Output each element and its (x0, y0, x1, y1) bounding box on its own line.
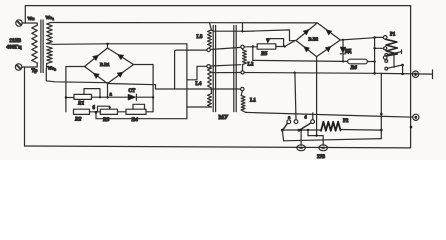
MU winding L4 (208, 68, 212, 94)
svg-text:R6: R6 (350, 65, 358, 71)
svg-text:L3: L3 (197, 35, 203, 40)
resistor R3 with wiper (98, 106, 127, 114)
label 115V 400Hz (6, 38, 22, 51)
svg-text:400Гц: 400Гц (6, 45, 22, 51)
wire L3 to L2 crossover (210, 47, 240, 49)
transformer Tr secondary winding Wb1 (47, 23, 52, 44)
terminal feedback circle (410, 114, 419, 128)
wire BB1 right corner to CT/R4 column (134, 65, 154, 112)
wire right vertical bus (410, 6, 412, 148)
contact b feed (312, 113, 314, 120)
svg-text:Wп: Wп (28, 16, 35, 21)
bridge rectifier BB1 (85, 43, 134, 84)
diode BB1 top-right (118, 55, 124, 60)
contact a feed (295, 73, 296, 120)
terminal output circle (412, 71, 418, 77)
wire node B to control winding (96, 112, 187, 118)
svg-text:L1: L1 (250, 99, 256, 104)
MU winding L3 (207, 23, 211, 52)
MU winding L4 terminal (187, 65, 210, 80)
diode BB2 bottom-right (325, 46, 331, 52)
svg-text:Р2: Р2 (343, 119, 349, 124)
relay P1 coil (373, 36, 397, 74)
wire MU left riser (186, 44, 188, 119)
wire R5 wiper loop (266, 39, 284, 47)
diode VD (340, 40, 346, 62)
diode BB1 bottom-right (117, 72, 123, 77)
wire bottom return bus (25, 146, 411, 148)
svg-text:R1: R1 (77, 101, 85, 107)
wire BB2 bottom corner down to 27V terminal (316, 57, 318, 136)
wire BB2 right corner to relay (340, 38, 374, 41)
resistor R4 (126, 104, 153, 114)
svg-text:б: б (305, 115, 308, 120)
diode CT (128, 94, 154, 100)
svg-text:R4: R4 (131, 117, 139, 123)
resistor R1 (66, 94, 128, 99)
wire contact output junction (401, 73, 404, 76)
transformer Tr primary winding (32, 23, 37, 67)
wire bottom link (284, 139, 382, 141)
wire relay to lower contact block (380, 73, 383, 138)
wire L2 bottom tap into core window (210, 72, 241, 74)
MU core lines (213, 26, 236, 112)
node a (65, 93, 113, 99)
wire left vertical return (24, 67, 26, 146)
wire aux AC to BB2 left corner (211, 23, 296, 41)
wire BB1 bottom corner to node a (107, 84, 109, 98)
diode BB2 top-right (326, 30, 332, 35)
svg-text:СТ: СТ (129, 89, 136, 94)
wire R1 tap loop (84, 89, 100, 98)
wire BB1 left corner to resistor column (66, 67, 85, 112)
resistor R2 (74, 109, 101, 114)
svg-text:Wв2: Wв2 (48, 65, 57, 71)
wire R5 node down to R6 line (252, 47, 254, 61)
node b (93, 106, 98, 114)
wire L2 bottom to relay column (244, 72, 432, 75)
svg-text:R2: R2 (74, 117, 82, 123)
transformer Tr core (41, 20, 43, 73)
svg-text:L4: L4 (196, 82, 202, 87)
terminal 27V left (297, 145, 306, 151)
resistor P2 (321, 122, 381, 131)
svg-text:Тр: Тр (32, 69, 38, 74)
svg-text:а: а (288, 115, 291, 120)
transformer Tr secondary winding Wb2 (47, 47, 52, 64)
svg-text:Wв1: Wв1 (46, 15, 55, 21)
diode BB1 bottom-left (93, 73, 99, 78)
potentiometer R5 (244, 41, 294, 49)
MU winding L4 lower half (187, 94, 212, 108)
terminal 27V right (319, 145, 328, 151)
wire contact commons (282, 129, 321, 146)
svg-text:115В: 115В (9, 38, 21, 44)
svg-text:Р1: Р1 (390, 33, 396, 38)
MU winding L1 (241, 87, 246, 112)
wire AC top (secondary top to bridge BB2 top corner) (51, 22, 318, 24)
svg-text:МУ: МУ (219, 115, 229, 121)
MU winding L2 (241, 45, 247, 74)
resistor R6 (253, 59, 376, 64)
svg-text:R3: R3 (102, 117, 110, 123)
terminal input bottom (115V) (15, 64, 37, 70)
relay P1 contact upper (385, 50, 402, 68)
wire L1 bottom to output terminal (246, 112, 413, 117)
wire L4 to L2 crossover (210, 65, 240, 66)
svg-text:27В: 27В (317, 155, 326, 160)
bridge rectifier BB2 (296, 23, 340, 57)
diode BB2 top-left (303, 30, 309, 35)
contact b (298, 120, 315, 132)
svg-text:R5: R5 (260, 51, 268, 57)
wire AC mid tap to bridge BB1 top and MU riser (47, 43, 187, 46)
svg-text:В.В1: В.В1 (100, 62, 110, 67)
contact a (281, 120, 298, 132)
svg-text:ВД: ВД (345, 50, 352, 55)
terminal end bar (432, 70, 434, 79)
svg-text:В.В2: В.В2 (309, 37, 319, 42)
wire top supply bus (25, 6, 410, 23)
wire AC bottom (secondary bottom to BB1 bottom, MU) (46, 50, 240, 89)
terminal input top (115V) (16, 20, 37, 26)
diode BB1 top-left (93, 55, 99, 61)
svg-text:L2: L2 (248, 63, 254, 68)
svg-text:б: б (93, 106, 96, 111)
relay P1 contact lower (385, 60, 404, 74)
diode BB2 bottom-left (304, 47, 310, 53)
